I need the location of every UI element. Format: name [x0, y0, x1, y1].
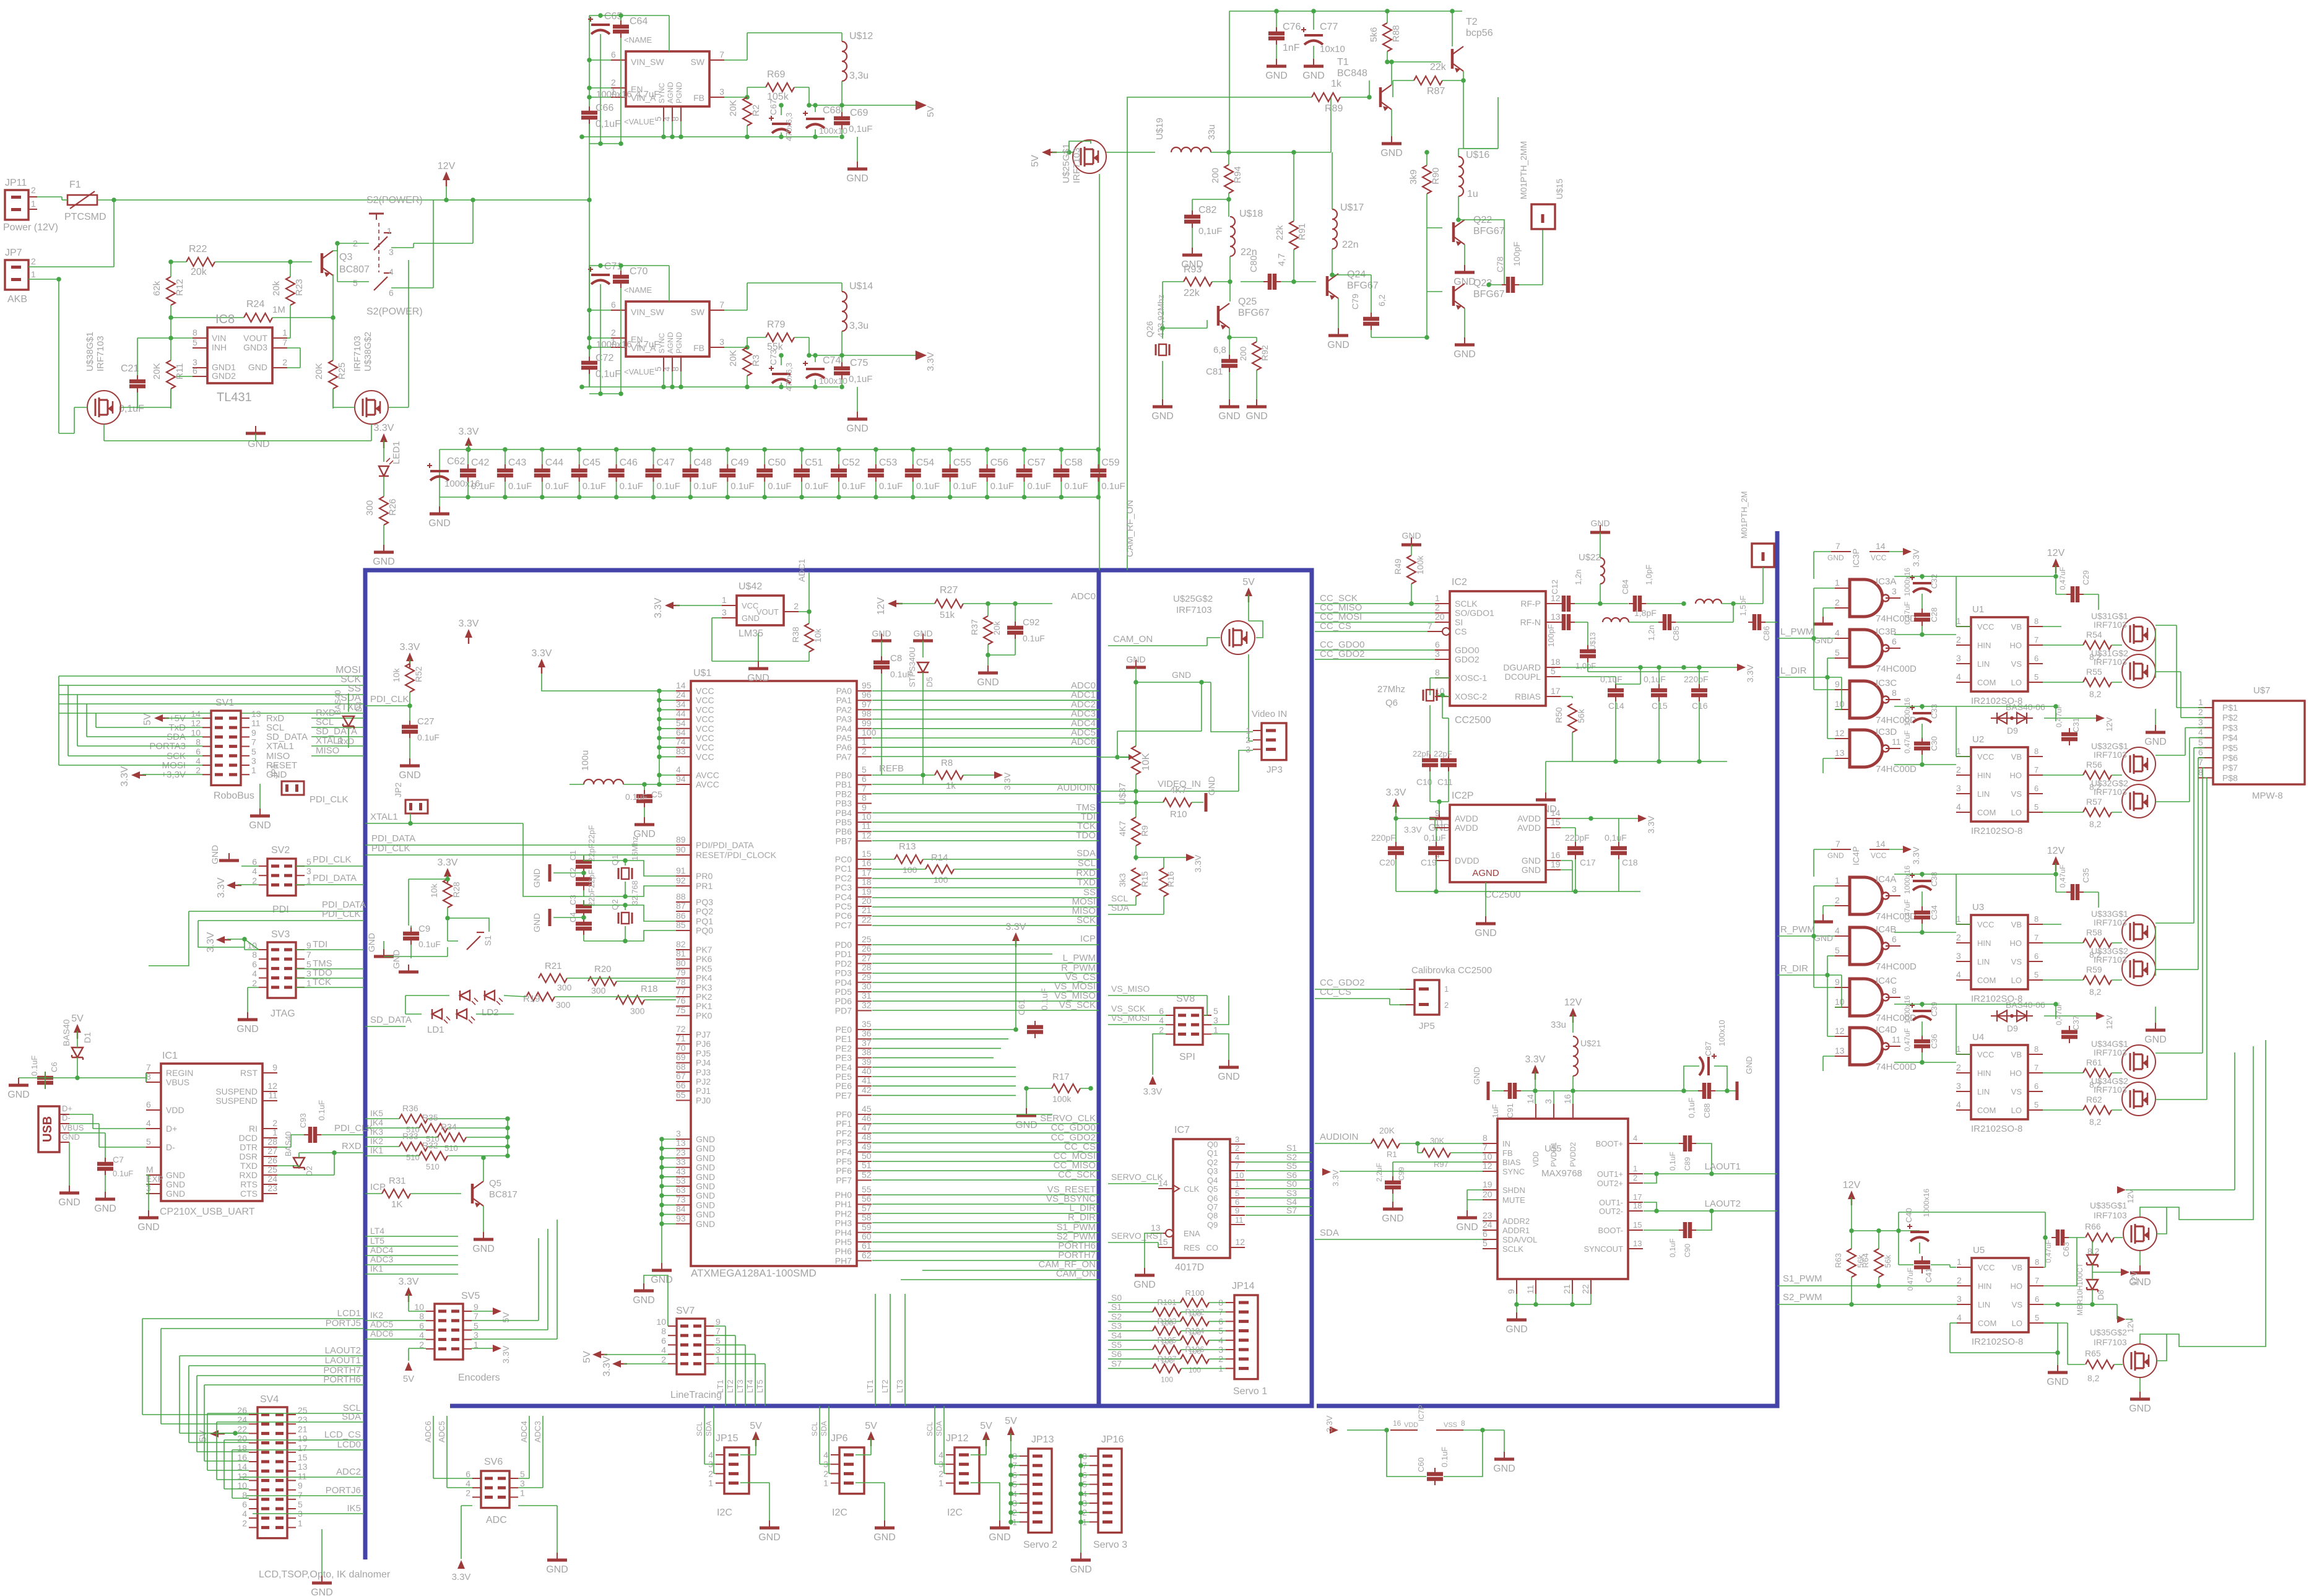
logic gate IC4D 74HC00D	[1850, 1028, 1882, 1065]
svg-text:VB: VB	[2012, 1263, 2022, 1272]
capacitor C35 0,47uF	[2073, 884, 2077, 900]
svg-text:C20: C20	[1379, 857, 1395, 867]
junction	[614, 495, 619, 500]
svg-text:IRF7103: IRF7103	[352, 336, 363, 371]
svg-text:GND: GND	[696, 1210, 715, 1220]
ground U5	[2057, 1365, 2058, 1373]
junction	[1160, 326, 1165, 331]
junction	[813, 353, 818, 358]
wire	[1684, 1066, 1699, 1091]
svg-text:COM: COM	[1977, 678, 1996, 687]
wire	[105, 1133, 106, 1158]
svg-text:5: 5	[298, 1499, 303, 1509]
resistor R28 10K	[443, 879, 452, 908]
svg-text:7: 7	[306, 950, 311, 960]
svg-text:40: 40	[862, 1066, 872, 1076]
svg-text:VS_MOSI: VS_MOSI	[1111, 1013, 1150, 1023]
wire	[1644, 1210, 1777, 1212]
svg-text:C66: C66	[596, 103, 613, 113]
svg-text:R18: R18	[641, 984, 658, 994]
resistor R10 4k7	[1163, 798, 1192, 807]
svg-text:0,1uF: 0,1uF	[596, 369, 621, 379]
svg-text:14: 14	[1525, 1094, 1535, 1104]
svg-text:62k: 62k	[152, 280, 162, 296]
ground LM35	[758, 661, 759, 669]
svg-text:SD_DATA: SD_DATA	[370, 1015, 412, 1025]
junction	[921, 773, 925, 778]
svg-text:73: 73	[676, 1194, 686, 1204]
junction	[659, 1193, 664, 1198]
svg-text:2: 2	[1435, 602, 1440, 612]
connector SV8 SPI	[1174, 1008, 1203, 1045]
junction	[1078, 1501, 1083, 1506]
wire	[1207, 638, 1220, 646]
svg-text:C21: C21	[121, 363, 139, 374]
svg-text:OUT1+: OUT1+	[1597, 1169, 1623, 1179]
capacitor C3 22pF	[576, 906, 592, 911]
svg-text:PK7: PK7	[696, 945, 713, 955]
svg-text:PH6: PH6	[835, 1246, 852, 1256]
supply arrow 3.3V IC4P	[1903, 846, 1912, 853]
wire	[300, 348, 301, 368]
svg-text:LCD_CS: LCD_CS	[324, 1429, 361, 1440]
wire	[69, 1142, 70, 1186]
wire	[391, 287, 433, 288]
svg-text:PF0: PF0	[836, 1109, 852, 1119]
wire	[1026, 1088, 1027, 1108]
svg-text:LO: LO	[2011, 678, 2022, 687]
junction	[985, 447, 990, 452]
svg-text:83: 83	[676, 746, 686, 756]
IC1 CP210X_USB_UART	[161, 1064, 262, 1201]
transistor U$31G$1 IRF7103	[2122, 617, 2155, 651]
svg-text:SCLK: SCLK	[1455, 599, 1478, 609]
svg-text:REFB: REFB	[879, 763, 904, 774]
svg-text:4K7: 4K7	[1117, 821, 1127, 836]
svg-text:100: 100	[1189, 1366, 1201, 1374]
junction	[688, 495, 693, 500]
wire	[334, 1152, 364, 1153]
capacitor C14 0,1uF	[1608, 690, 1624, 695]
svg-text:88: 88	[676, 891, 686, 901]
capacitor C37 0,47uF	[2061, 1032, 2077, 1037]
svg-text:76: 76	[676, 995, 686, 1005]
svg-text:C9: C9	[418, 924, 430, 934]
connector JP12 I2C	[955, 1447, 979, 1494]
ground U$22	[1600, 525, 1601, 532]
svg-text:GND: GND	[472, 1244, 495, 1254]
svg-text:PE2: PE2	[836, 1043, 852, 1053]
svg-text:Q6: Q6	[1385, 698, 1398, 708]
svg-text:R15: R15	[1140, 871, 1150, 887]
wire	[333, 407, 355, 408]
wire	[409, 1311, 426, 1312]
junction	[986, 601, 990, 606]
svg-text:12V: 12V	[2047, 548, 2065, 558]
svg-text:JP16: JP16	[1101, 1434, 1124, 1445]
ground	[439, 506, 440, 514]
svg-text:12: 12	[191, 718, 201, 728]
wire	[77, 1057, 78, 1078]
IC U$42 LM35	[737, 596, 784, 625]
svg-text:27Mhz: 27Mhz	[1377, 684, 1405, 695]
svg-text:5: 5	[193, 337, 197, 347]
wire	[121, 407, 137, 408]
junction	[657, 688, 662, 693]
wire	[1117, 731, 1202, 732]
junction	[1613, 759, 1618, 764]
junction	[1920, 1002, 1925, 1007]
svg-text:22pF: 22pF	[1413, 749, 1431, 758]
svg-text:4: 4	[1835, 926, 1840, 935]
wire	[1600, 584, 1601, 604]
svg-text:SV2: SV2	[271, 845, 290, 856]
svg-text:30K: 30K	[1430, 1136, 1444, 1145]
junction	[1920, 762, 1925, 767]
svg-text:VS: VS	[2011, 789, 2022, 799]
wire	[1108, 1183, 1158, 1184]
svg-text:220pF: 220pF	[1684, 674, 1709, 684]
svg-text:LT1: LT1	[865, 1380, 875, 1393]
resistor R23 20k	[286, 277, 295, 305]
wire	[238, 884, 259, 885]
svg-text:GND: GND	[1590, 518, 1609, 528]
svg-text:R9: R9	[1140, 825, 1150, 836]
wire LO	[2043, 1322, 2068, 1324]
svg-text:HO: HO	[2010, 641, 2022, 650]
svg-text:14: 14	[1551, 808, 1561, 818]
svg-text:SW: SW	[690, 57, 704, 67]
svg-text:RTS: RTS	[240, 1179, 258, 1189]
svg-text:PDI_CLK: PDI_CLK	[322, 909, 361, 919]
capacitor C20 220pF	[1388, 848, 1404, 853]
wire	[711, 618, 713, 661]
svg-text:R63: R63	[1834, 1253, 1843, 1268]
svg-text:GND: GND	[1126, 654, 1145, 664]
junction	[1078, 1491, 1083, 1496]
svg-text:IK1: IK1	[370, 1264, 383, 1273]
svg-text:8: 8	[252, 950, 257, 960]
ground SV4	[321, 1576, 323, 1583]
svg-text:ADC3: ADC3	[533, 1421, 542, 1442]
junction	[1697, 759, 1702, 764]
svg-text:20: 20	[862, 896, 872, 906]
junction	[1008, 1520, 1013, 1525]
ground mos	[2155, 725, 2156, 732]
svg-text:BFG67: BFG67	[1347, 280, 1379, 291]
junction	[1588, 816, 1593, 821]
svg-text:OUT1-: OUT1-	[1599, 1198, 1623, 1207]
svg-text:ADC5: ADC5	[437, 1421, 446, 1442]
ground JP6	[884, 1520, 885, 1528]
svg-text:VCC: VCC	[1871, 553, 1887, 562]
supply 3.3V	[465, 629, 472, 644]
svg-text:3.3V: 3.3V	[206, 932, 216, 952]
junction	[779, 134, 784, 139]
resistor R91 22k	[1289, 221, 1298, 249]
svg-text:R21: R21	[545, 961, 562, 971]
svg-text:0,47uF: 0,47uF	[1903, 1028, 1912, 1051]
junction	[688, 447, 693, 452]
svg-text:6: 6	[252, 959, 257, 969]
svg-text:10K: 10K	[1141, 753, 1151, 771]
svg-text:8: 8	[2035, 1257, 2039, 1267]
svg-text:PA3: PA3	[836, 714, 852, 724]
svg-text:22n: 22n	[1342, 240, 1359, 250]
svg-text:5V: 5V	[865, 1421, 877, 1431]
inductor U$14 3,3u	[842, 292, 847, 331]
svg-text:GND2: GND2	[212, 371, 236, 381]
svg-text:4: 4	[823, 1450, 828, 1460]
svg-text:11: 11	[251, 718, 261, 728]
svg-text:JP13: JP13	[1031, 1434, 1054, 1445]
wire	[287, 337, 290, 339]
svg-text:0.1uF: 0.1uF	[768, 481, 791, 492]
svg-text:<VALUE: <VALUE	[624, 117, 655, 126]
svg-text:GND: GND	[872, 628, 891, 638]
svg-text:PH2: PH2	[835, 1208, 852, 1218]
wire	[137, 392, 138, 407]
svg-text:51: 51	[862, 1160, 872, 1170]
svg-text:GND: GND	[1265, 71, 1288, 81]
svg-text:15: 15	[862, 849, 872, 859]
svg-text:21: 21	[298, 1424, 308, 1434]
svg-text:R22: R22	[189, 244, 207, 254]
wire	[600, 284, 601, 394]
svg-text:GND: GND	[249, 820, 271, 831]
svg-text:IR2102SO-8: IR2102SO-8	[1972, 1337, 2023, 1347]
svg-text:6,8: 6,8	[1213, 345, 1226, 355]
svg-text:ADC0: ADC0	[1071, 591, 1096, 602]
svg-text:VCC: VCC	[1977, 920, 1994, 929]
wire	[1956, 1304, 1957, 1305]
svg-text:LAOUT2: LAOUT2	[1705, 1199, 1741, 1209]
svg-text:92: 92	[676, 875, 686, 885]
resistor R97 30K	[1422, 1148, 1450, 1157]
svg-text:IC3P: IC3P	[1851, 549, 1861, 568]
inductor U$12 3,3u	[842, 41, 847, 81]
wire	[1108, 914, 1164, 915]
svg-text:PB2: PB2	[836, 789, 852, 799]
svg-text:RBIAS: RBIAS	[1515, 692, 1541, 701]
capacitor C80 4,7	[1270, 274, 1275, 290]
junction	[1393, 816, 1398, 821]
svg-text:COM: COM	[1977, 808, 1996, 817]
svg-text:3.3V: 3.3V	[1386, 787, 1406, 798]
svg-text:GND: GND	[1814, 933, 1833, 943]
svg-text:SV7: SV7	[676, 1306, 695, 1316]
junction	[332, 1150, 337, 1155]
svg-text:7: 7	[719, 50, 724, 59]
svg-text:5V: 5V	[71, 1013, 84, 1024]
svg-text:28: 28	[267, 1137, 277, 1147]
svg-text:8,2: 8,2	[2089, 987, 2102, 997]
wire	[899, 603, 935, 604]
svg-text:Q5: Q5	[489, 1178, 501, 1189]
svg-text:GND: GND	[696, 1219, 715, 1229]
svg-text:5: 5	[2034, 672, 2038, 682]
svg-text:4K7: 4K7	[1170, 785, 1187, 796]
wire	[1211, 1034, 1229, 1060]
junction	[1078, 1473, 1083, 1478]
logic gate IC3D 74HC00D	[1850, 730, 1882, 767]
junction	[168, 259, 173, 264]
svg-text:U$17: U$17	[1340, 202, 1364, 213]
svg-text:GND: GND	[1453, 277, 1476, 287]
svg-text:RI: RI	[249, 1124, 258, 1134]
junction	[623, 903, 628, 908]
svg-text:R91: R91	[1297, 223, 1307, 240]
svg-text:IK1: IK1	[370, 1145, 383, 1155]
supply arrow 12V VS	[2117, 1316, 2126, 1323]
svg-text:U$1: U$1	[693, 668, 711, 679]
svg-text:510: 510	[406, 1153, 420, 1162]
svg-text:4: 4	[1633, 1134, 1637, 1143]
svg-text:Servo 1: Servo 1	[1233, 1386, 1267, 1397]
svg-text:5V: 5V	[980, 1421, 992, 1431]
wire	[1229, 11, 1462, 12]
svg-text:PK3: PK3	[696, 982, 713, 992]
svg-text:1uF: 1uF	[1491, 1104, 1500, 1118]
svg-text:R32: R32	[422, 1140, 438, 1150]
svg-text:SUSPEND: SUSPEND	[215, 1096, 258, 1106]
svg-text:15: 15	[1551, 817, 1561, 827]
wire	[142, 774, 202, 775]
junction	[1389, 59, 1394, 64]
capacitor C86	[1754, 614, 1759, 630]
logic gate IC3B 74HC00D	[1850, 630, 1882, 667]
svg-text:ADC6: ADC6	[423, 1421, 433, 1442]
wires SCL/SDA JP12	[934, 1406, 935, 1464]
junction	[726, 495, 730, 500]
resistor R55 8,2	[2083, 678, 2112, 687]
wire	[747, 87, 766, 88]
svg-text:L_DIR: L_DIR	[1780, 666, 1807, 676]
svg-text:5: 5	[1835, 945, 1840, 955]
svg-text:CP210X_USB_UART: CP210X_USB_UART	[160, 1207, 255, 1217]
svg-text:1: 1	[306, 875, 311, 885]
wire	[1108, 1024, 1166, 1025]
svg-text:PR0: PR0	[696, 871, 713, 881]
svg-text:VIN: VIN	[212, 333, 226, 343]
svg-text:1: 1	[2198, 697, 2203, 707]
svg-text:3.3V: 3.3V	[1911, 549, 1921, 566]
wire	[841, 283, 843, 292]
supply 5V JP6	[867, 1431, 875, 1446]
svg-text:XOSC-1: XOSC-1	[1455, 673, 1487, 683]
svg-text:VCC: VCC	[1977, 752, 1994, 761]
svg-text:T1: T1	[1337, 57, 1349, 67]
svg-text:3.3V: 3.3V	[1646, 815, 1656, 833]
svg-text:JP5: JP5	[1419, 1021, 1435, 1031]
wire	[857, 137, 858, 162]
wire	[1696, 1211, 1712, 1230]
wire	[1229, 256, 1231, 282]
svg-text:8: 8	[1461, 1419, 1465, 1428]
wire	[69, 1123, 99, 1124]
svg-text:S0: S0	[1111, 1293, 1122, 1303]
svg-text:Encoders: Encoders	[458, 1373, 500, 1383]
wire	[104, 440, 256, 441]
svg-text:VDD: VDD	[1531, 1151, 1540, 1167]
wire	[391, 247, 414, 248]
svg-text:9: 9	[474, 1302, 479, 1312]
svg-text:1nF: 1nF	[1283, 43, 1300, 53]
junction	[168, 336, 173, 340]
svg-text:12: 12	[267, 1081, 277, 1091]
capacitor C16 220pF	[1691, 690, 1707, 695]
wire	[1393, 80, 1414, 81]
wire	[244, 939, 245, 950]
resistor R49 100k	[1407, 555, 1416, 584]
junction	[1096, 495, 1101, 500]
junction	[1367, 95, 1372, 100]
svg-text:R97: R97	[1434, 1160, 1449, 1169]
wire	[1315, 998, 1390, 999]
svg-text:7: 7	[298, 1490, 303, 1500]
svg-text:56k: 56k	[1883, 1255, 1892, 1268]
wire Q22-Q23	[1458, 220, 1504, 285]
svg-text:D5: D5	[925, 677, 934, 687]
capacitor C50 0.1uF	[756, 471, 773, 475]
svg-text:PDI/PDI_DATA: PDI/PDI_DATA	[696, 840, 754, 850]
svg-text:0.1uF: 0.1uF	[879, 481, 903, 492]
svg-text:R36: R36	[402, 1103, 418, 1113]
svg-text:3.3V: 3.3V	[119, 766, 130, 786]
junction	[659, 1165, 664, 1170]
svg-text:PF5: PF5	[836, 1156, 852, 1166]
svg-text:VS: VS	[2012, 1300, 2023, 1309]
junction	[1456, 217, 1461, 222]
svg-text:3.3V: 3.3V	[925, 352, 936, 371]
svg-text:SERVO_RST: SERVO_RST	[1111, 1231, 1164, 1241]
junction	[642, 782, 647, 787]
svg-text:R14: R14	[931, 852, 948, 863]
svg-text:C12: C12	[1550, 579, 1559, 594]
svg-text:RESET/PDI_CLOCK: RESET/PDI_CLOCK	[696, 850, 777, 860]
svg-text:8: 8	[2034, 617, 2038, 626]
svg-text:PJ2: PJ2	[696, 1077, 711, 1086]
junction	[1133, 789, 1138, 794]
svg-text:C58: C58	[1064, 458, 1082, 468]
svg-text:U1: U1	[1972, 604, 1984, 615]
svg-text:0.1uF: 0.1uF	[1101, 481, 1125, 492]
wire	[37, 196, 62, 197]
IC U$1 ATXMEGA128A1-100SMD	[691, 681, 857, 1266]
svg-text:R11: R11	[175, 363, 185, 379]
svg-text:1: 1	[1213, 1025, 1218, 1034]
svg-text:1: 1	[862, 737, 867, 747]
svg-text:8,2: 8,2	[2089, 689, 2102, 699]
capacitor C69 0,1uF	[834, 118, 850, 123]
svg-text:LO: LO	[2012, 1319, 2022, 1328]
svg-text:LT5: LT5	[755, 1380, 765, 1393]
wire	[332, 389, 334, 407]
svg-text:PDI: PDI	[272, 904, 289, 915]
svg-text:GND: GND	[373, 557, 395, 567]
svg-text:63: 63	[676, 1185, 686, 1195]
svg-text:P$5: P$5	[2222, 743, 2238, 753]
ground C60	[1504, 1452, 1505, 1459]
svg-text:R31: R31	[389, 1176, 406, 1186]
svg-text:U$42: U$42	[739, 581, 762, 592]
junction	[1008, 1482, 1013, 1487]
svg-text:1: 1	[282, 327, 287, 337]
junction	[1227, 335, 1232, 340]
svg-text:14: 14	[1876, 541, 1886, 551]
svg-text:2: 2	[1956, 635, 1961, 644]
connector JP2	[405, 800, 428, 813]
